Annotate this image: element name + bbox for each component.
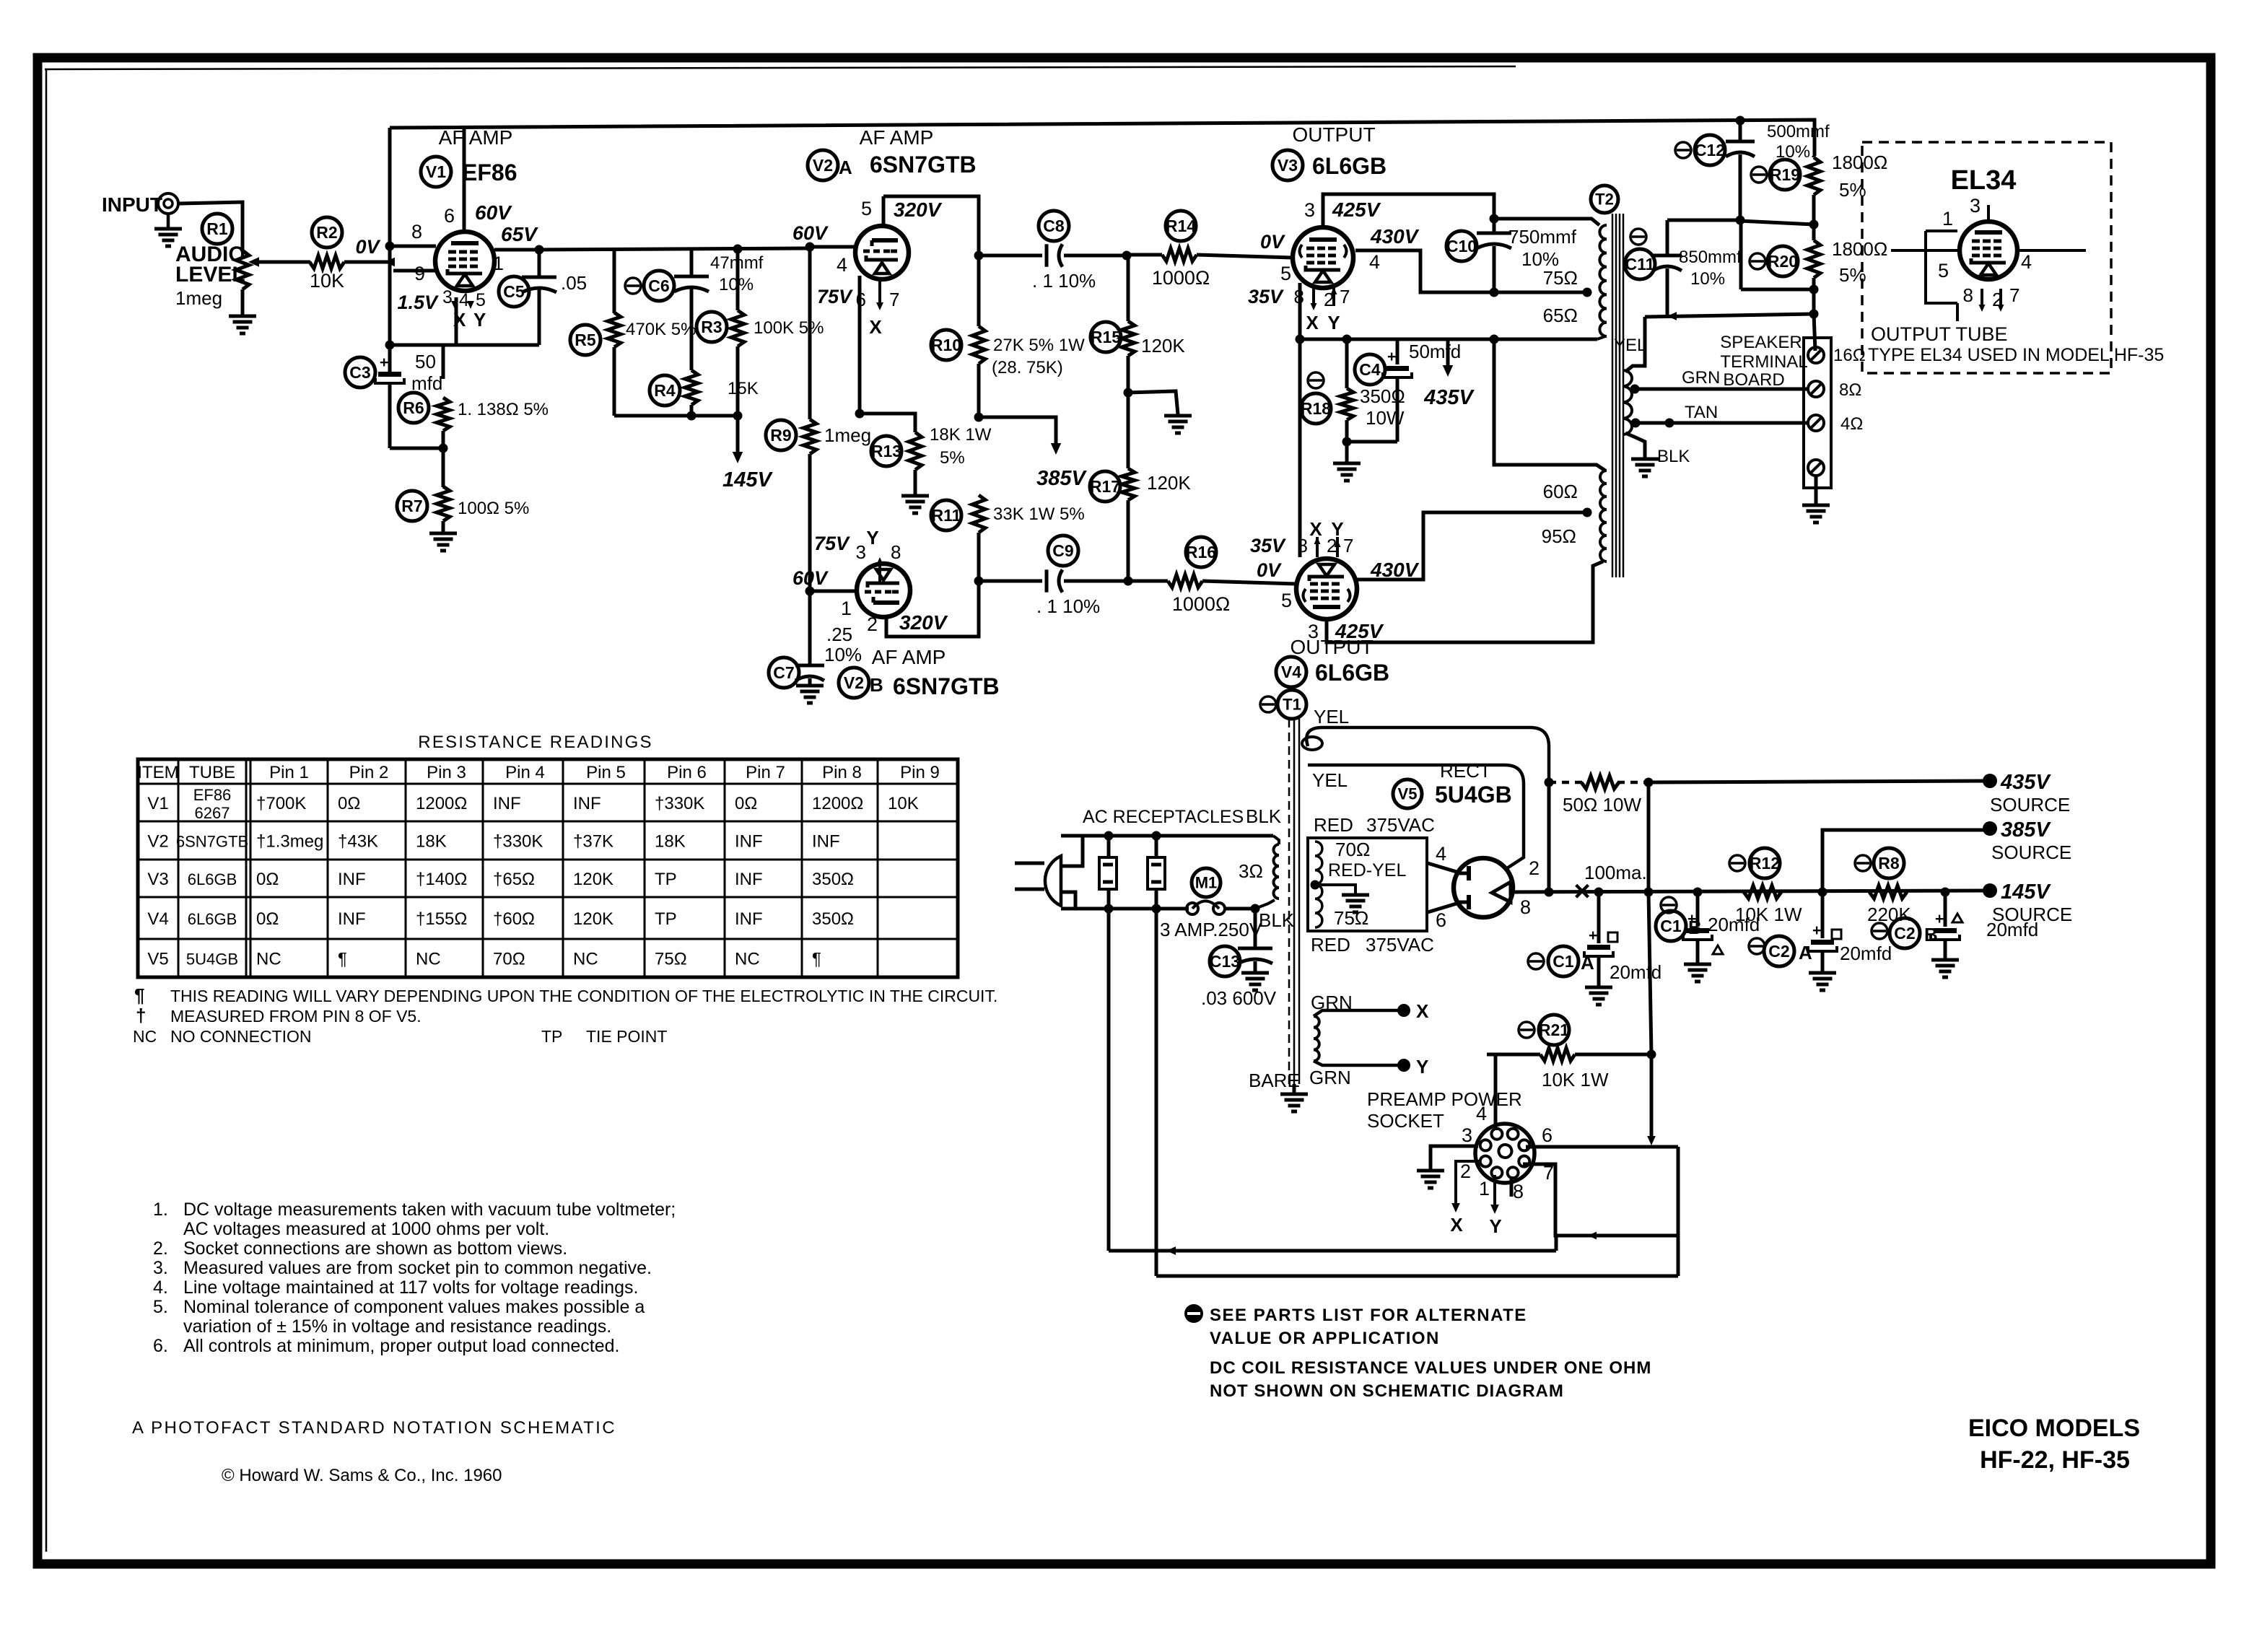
svg-text:†330K: †330K — [493, 832, 543, 852]
svg-text:VALUE OR APPLICATION: VALUE OR APPLICATION — [1210, 1329, 1440, 1348]
svg-text:R12: R12 — [1750, 854, 1780, 873]
svg-text:7: 7 — [1343, 535, 1353, 556]
svg-text:120K: 120K — [573, 909, 613, 929]
svg-text:INF: INF — [338, 870, 366, 889]
INPUT jack J1 — [102, 193, 178, 216]
AC plug — [1015, 836, 1083, 909]
wire V3/V4 cathode bus — [1296, 335, 1606, 344]
svg-text:INPUT: INPUT — [102, 193, 162, 216]
svg-text:EL34: EL34 — [1951, 165, 2017, 196]
svg-text:320V: 320V — [899, 611, 948, 634]
svg-text:R10: R10 — [931, 336, 961, 354]
svg-text:+: + — [380, 354, 388, 371]
terminal ground — [1808, 460, 1824, 476]
svg-text:INF: INF — [493, 794, 521, 813]
wire YEL lead 1 (5V winding to 50ohm node) — [1302, 727, 1549, 781]
wire 50ohm vertical left — [1547, 782, 1551, 892]
label AF AMP (V2B) — [872, 646, 946, 668]
svg-text:5: 5 — [476, 290, 486, 310]
wire V4 grid — [1257, 559, 1292, 611]
svg-text:R9: R9 — [770, 426, 791, 445]
wire grid-box bottom — [390, 344, 539, 347]
wire T1 primary top hook — [1273, 836, 1279, 844]
node 0V (V1 grid) — [355, 236, 380, 258]
svg-text:4.: 4. — [153, 1277, 168, 1298]
table row V2 — [147, 832, 839, 852]
svg-text:A: A — [1581, 952, 1594, 974]
svg-text:0Ω: 0Ω — [256, 909, 279, 929]
wire GRN to X — [1314, 1000, 1429, 1022]
svg-text:3 AMP.250V: 3 AMP.250V — [1160, 919, 1262, 940]
wire C5 to box bottom — [538, 289, 541, 345]
svg-text:Pin 6: Pin 6 — [667, 763, 707, 782]
resistor R14 1000ohm — [1127, 211, 1293, 289]
ground (R18) — [1333, 442, 1361, 481]
wire V5 pin 6 — [1428, 904, 1457, 931]
label 100ma / X tie point — [1573, 862, 1646, 907]
svg-text:0Ω: 0Ω — [735, 794, 757, 813]
svg-text:TP: TP — [655, 870, 677, 889]
svg-text:18K: 18K — [416, 832, 447, 852]
svg-text:R4: R4 — [654, 381, 676, 400]
wire cathode bus to lower winding — [1494, 339, 1605, 471]
wire B+ down to R21 node — [1649, 892, 1651, 1054]
AC receptacle 1 — [1099, 836, 1117, 909]
label 430V (V3 screen) — [1370, 225, 1420, 248]
label DC COIL RESISTANCE — [1210, 1358, 1651, 1401]
svg-text:†65Ω: †65Ω — [493, 870, 535, 889]
resistor R4 15K — [650, 289, 759, 416]
svg-text:8: 8 — [891, 541, 901, 563]
ground (socket) — [1417, 1171, 1444, 1188]
label PREAMP POWER SOCKET — [1367, 1088, 1522, 1132]
svg-text:20mfd: 20mfd — [1610, 961, 1661, 983]
wire AC bottom bus — [1061, 904, 1189, 914]
tube V5 5U4GB — [1454, 858, 1513, 917]
resistor R5 470K — [570, 250, 696, 416]
svg-text:TP: TP — [541, 1027, 562, 1046]
svg-text:INF: INF — [573, 794, 601, 813]
svg-text:C7: C7 — [773, 663, 794, 682]
node 435V junction — [1644, 778, 1654, 787]
svg-text:C1: C1 — [1553, 952, 1574, 971]
svg-text:NC: NC — [416, 950, 441, 969]
node V1 plate junction — [535, 245, 544, 255]
notes list — [153, 1199, 676, 1356]
svg-text:†37K: †37K — [573, 832, 613, 852]
capacitor C3 50mfd — [345, 351, 442, 448]
svg-text:2.: 2. — [153, 1238, 168, 1259]
svg-text:R14: R14 — [1166, 217, 1196, 235]
svg-text:+: + — [1387, 349, 1396, 365]
svg-text:Y: Y — [1416, 1056, 1428, 1078]
wire R21 node to pin6 line — [1647, 1054, 1656, 1145]
svg-text:Y: Y — [1331, 518, 1343, 540]
capacitor C2 section B 20mfd — [1872, 892, 2038, 960]
capacitor C1 section A 20mfd — [1528, 892, 1661, 987]
table footnote dagger — [136, 1005, 422, 1026]
label OUTPUT (V4) — [1290, 636, 1373, 658]
svg-text:X: X — [869, 316, 882, 338]
svg-text:5%: 5% — [940, 448, 965, 468]
svg-text:BLK: BLK — [1246, 805, 1282, 827]
resistor R7 100ohm — [397, 448, 529, 533]
svg-text:8: 8 — [1963, 284, 1973, 306]
ground (terminal board) — [1802, 476, 1830, 523]
svg-text:RECT: RECT — [1440, 760, 1491, 782]
svg-text:120K: 120K — [1147, 472, 1191, 494]
svg-text:430V: 430V — [1370, 559, 1420, 581]
svg-text:R17: R17 — [1090, 477, 1120, 496]
svg-text:R11: R11 — [932, 506, 961, 525]
ground (C7) — [796, 686, 824, 703]
svg-text:AC voltages measured at 1000 o: AC voltages measured at 1000 ohms per vo… — [183, 1219, 549, 1239]
svg-text:OUTPUT: OUTPUT — [1292, 123, 1375, 146]
label copyright Howard W. Sams — [222, 1466, 502, 1485]
svg-text:R21: R21 — [1539, 1021, 1569, 1039]
svg-text:350Ω: 350Ω — [812, 870, 854, 889]
svg-text:5: 5 — [1280, 263, 1291, 284]
svg-text:50mfd: 50mfd — [1409, 341, 1461, 362]
wire to 435V source — [1649, 781, 1988, 782]
tube V4 designator — [1276, 657, 1389, 687]
svg-text:1000Ω: 1000Ω — [1152, 267, 1210, 289]
svg-text:C4: C4 — [1359, 360, 1381, 379]
svg-text:10K: 10K — [310, 270, 344, 292]
svg-text:TERMINAL: TERMINAL — [1720, 352, 1807, 372]
wire V3 plate pin 3 — [1304, 194, 1494, 227]
node 385V SOURCE — [1983, 818, 2071, 863]
node C10 bottom junction — [1490, 288, 1499, 297]
svg-text:. 1 10%: . 1 10% — [1032, 270, 1096, 292]
svg-text:8Ω: 8Ω — [1839, 380, 1861, 400]
terminal 4 ohm — [1808, 414, 1863, 434]
wire V1 left vertical — [388, 128, 392, 370]
svg-text:1: 1 — [841, 598, 852, 619]
table row V4 — [147, 909, 854, 929]
wire V2A grid — [792, 222, 856, 276]
wire socket pin 8 stub — [1510, 1176, 1514, 1197]
wire GRN tap — [1630, 368, 1809, 394]
node 145V source arrow — [722, 416, 773, 491]
wire pin 9 — [393, 263, 439, 284]
wire R1 to ground — [241, 289, 245, 316]
svg-text:X: X — [1450, 1214, 1463, 1236]
svg-text:SPEAKER: SPEAKER — [1720, 333, 1802, 352]
svg-text:M1: M1 — [1195, 873, 1218, 891]
svg-text:35V: 35V — [1248, 286, 1284, 307]
svg-text:BARE: BARE — [1249, 1070, 1300, 1091]
resistor 50ohm 10W (dashed leads) — [1549, 776, 1649, 816]
wire bottom 145V bus — [614, 411, 743, 421]
svg-text:SEE PARTS LIST FOR ALTERNA: SEE PARTS LIST FOR ALTERNATE — [1210, 1306, 1527, 1325]
wire R2 to V1 grid — [344, 258, 395, 267]
node 385V source arrow — [979, 417, 1088, 490]
svg-text:INF: INF — [812, 832, 840, 852]
svg-text:MEASURED FROM PIN 8 OF V5.: MEASURED FROM PIN 8 OF V5. — [170, 1007, 422, 1026]
svg-text:C11: C11 — [1625, 255, 1655, 274]
resistor R9 1meg — [766, 419, 871, 591]
label AF AMP (V1) — [439, 126, 513, 149]
table footnote TP — [541, 1027, 667, 1046]
svg-text:© Howard W. Sams & Co., Inc.: © Howard W. Sams & Co., Inc. 1960 — [222, 1466, 502, 1485]
svg-text:†155Ω: †155Ω — [416, 909, 467, 929]
svg-text:1200Ω: 1200Ω — [812, 794, 863, 813]
svg-text:AC RECEPTACLES: AC RECEPTACLES — [1083, 807, 1244, 827]
table row V1 — [147, 786, 918, 822]
svg-text:LEVEL: LEVEL — [175, 263, 245, 287]
svg-text:320V: 320V — [894, 198, 943, 221]
label BLK (top) — [1246, 805, 1282, 827]
svg-text:INF: INF — [338, 909, 366, 929]
table row V3 — [147, 870, 854, 889]
svg-text:75V: 75V — [814, 533, 850, 554]
svg-text:5: 5 — [1938, 260, 1949, 281]
svg-text:5: 5 — [861, 198, 872, 219]
svg-text:435V: 435V — [2000, 771, 2051, 794]
svg-text:20mfd: 20mfd — [1708, 914, 1760, 935]
transformer T2 primary lower winding — [1542, 471, 1607, 561]
node top rail end — [1736, 116, 1745, 126]
svg-text:Socket connections are shown a: Socket connections are shown as bottom v… — [183, 1238, 567, 1259]
wire V1-V2 coupling vertical — [808, 248, 812, 419]
capacitor C8 .1 — [979, 211, 1127, 292]
svg-text:1.: 1. — [153, 1199, 168, 1220]
svg-text:†: † — [136, 1005, 146, 1026]
label Y / pins 3 8 (V2B) — [814, 527, 901, 585]
svg-text:4: 4 — [2021, 251, 2032, 273]
ground (BLK) — [1631, 459, 1659, 476]
svg-text:V1: V1 — [426, 162, 446, 181]
wire socket pin X arrow — [1450, 1161, 1481, 1236]
svg-text:9: 9 — [414, 263, 425, 284]
svg-text:AF AMP: AF AMP — [860, 126, 934, 149]
svg-text:8: 8 — [411, 221, 422, 242]
label AF AMP (V2A) — [860, 126, 934, 149]
svg-text:6L6GB: 6L6GB — [188, 910, 237, 928]
label YEL (top) — [1314, 706, 1349, 727]
label 1.5V / pins 3 4 5 / X Y — [397, 287, 486, 331]
label pin 1 — [493, 253, 504, 274]
resistor R8 220K — [1855, 848, 1911, 925]
AC receptacle 2 — [1148, 836, 1165, 909]
svg-text:V1: V1 — [147, 794, 168, 813]
svg-text:350Ω: 350Ω — [812, 909, 854, 929]
wire main B+ rail — [1513, 888, 1988, 897]
capacitor C7 .25 — [769, 591, 862, 688]
wire V2A plate rail — [883, 196, 979, 255]
svg-text:Y: Y — [866, 527, 878, 549]
terminal 16 ohm — [1808, 346, 1866, 365]
speaker terminal board — [1804, 338, 1831, 488]
wire V2B plate link — [867, 581, 979, 637]
wire C3 bottom to R6 bottom — [390, 444, 448, 453]
resistor R21 10K 1W — [1487, 1015, 1651, 1091]
svg-text:1: 1 — [1479, 1178, 1490, 1199]
table header row — [137, 763, 940, 782]
tube V1 EF86 — [435, 232, 494, 291]
svg-text:C13: C13 — [1210, 952, 1240, 971]
wire 385V line — [1822, 830, 1990, 892]
svg-text:C5: C5 — [503, 282, 525, 301]
ground (C2A) — [1809, 973, 1836, 990]
svg-text:4: 4 — [1476, 1103, 1487, 1124]
svg-text:60V: 60V — [792, 222, 829, 244]
svg-text:AF AMP: AF AMP — [439, 126, 513, 149]
label 75 ohm — [1334, 907, 1368, 929]
svg-text:YEL: YEL — [1614, 336, 1646, 355]
svg-text:C6: C6 — [648, 276, 669, 295]
svg-text:850mmf: 850mmf — [1679, 248, 1742, 267]
svg-text:TP: TP — [655, 909, 677, 929]
svg-text:20mfd: 20mfd — [1986, 919, 2038, 940]
svg-text:INF: INF — [735, 870, 763, 889]
ground (R7) — [429, 533, 457, 551]
svg-text:0V: 0V — [1260, 231, 1285, 253]
svg-text:Pin 1: Pin 1 — [269, 763, 309, 782]
svg-text:BOARD: BOARD — [1723, 370, 1784, 390]
node V2B plate node — [974, 577, 984, 586]
svg-text:6SN7GTB: 6SN7GTB — [870, 152, 977, 178]
node R15-R17 junction + ground stub — [1124, 388, 1179, 415]
ground (C1A) — [1585, 987, 1612, 1005]
resistor R15 120K — [1091, 255, 1185, 468]
svg-text:6SN7GTB: 6SN7GTB — [176, 833, 248, 851]
svg-text:1.5V: 1.5V — [397, 292, 439, 313]
svg-text:Pin 3: Pin 3 — [427, 763, 466, 782]
svg-text:NOT SHOWN ON SCHEMATIC DIA: NOT SHOWN ON SCHEMATIC DIAGRAM — [1210, 1381, 1564, 1401]
socket pin labels — [1460, 1103, 1554, 1202]
svg-text:R8: R8 — [1878, 854, 1900, 873]
wire EL34 grid line — [1891, 250, 2086, 281]
svg-text:6SN7GTB: 6SN7GTB — [893, 673, 1000, 699]
label RECT — [1440, 760, 1491, 782]
label TYPE EL34 USED IN MODEL HF-35 — [1868, 345, 2164, 365]
svg-text:1meg: 1meg — [175, 287, 222, 309]
svg-text:750mmf: 750mmf — [1508, 226, 1577, 248]
svg-text:430V: 430V — [1370, 225, 1420, 248]
svg-text:4: 4 — [1369, 251, 1380, 273]
tube V2B 6SN7GTB triode — [857, 564, 910, 617]
resistor R6 1.138ohm — [398, 345, 549, 448]
wire R21 to socket pin 4 — [1494, 1054, 1498, 1130]
node R21 junction — [1647, 1050, 1656, 1059]
svg-text:R2: R2 — [316, 223, 337, 242]
transformer T2 designator — [1591, 185, 1618, 213]
svg-text:T2: T2 — [1595, 190, 1614, 208]
capacitor C6 47mmf — [625, 249, 764, 301]
capacitor C12 500mmf — [1675, 120, 1830, 220]
svg-text:R19: R19 — [1770, 165, 1800, 184]
svg-text:EICO MODELS: EICO MODELS — [1968, 1415, 2140, 1442]
label SPEAKER TERMINAL BOARD — [1720, 333, 1807, 390]
resistor R3 100K — [696, 245, 824, 416]
svg-text:75Ω: 75Ω — [655, 950, 687, 969]
wire GRN to Y — [1314, 1056, 1428, 1078]
svg-text:C1: C1 — [1660, 917, 1682, 935]
svg-text:0V: 0V — [355, 236, 380, 258]
svg-text:†60Ω: †60Ω — [493, 909, 535, 929]
svg-text:C10: C10 — [1446, 237, 1477, 255]
wire RED-YEL center tap — [1311, 860, 1407, 895]
svg-text:†330K: †330K — [655, 794, 704, 813]
svg-text:65V: 65V — [501, 223, 538, 245]
label EL34 — [1951, 165, 2017, 196]
ground (C2B) — [1931, 960, 1959, 977]
wire bottom return A — [1109, 909, 1556, 1255]
label EL34 pins 8 2 7 — [1957, 284, 2019, 321]
wire AC top bus — [1061, 831, 1273, 841]
svg-text:INF: INF — [735, 909, 763, 929]
svg-text:V2: V2 — [147, 832, 168, 852]
svg-text:1. 138Ω 5%: 1. 138Ω 5% — [458, 400, 549, 419]
ground (T1 core BARE) — [1280, 1084, 1308, 1111]
svg-text:1000Ω: 1000Ω — [1172, 593, 1230, 615]
capacitor C2 section A 20mfd — [1749, 892, 1892, 973]
svg-text:425V: 425V — [1332, 198, 1381, 221]
node cathode junction — [855, 409, 865, 419]
table row V5 — [147, 950, 821, 969]
svg-text:YEL: YEL — [1312, 769, 1348, 791]
wire V3 cathode — [1298, 283, 1302, 339]
resistor R16 1000ohm — [1128, 537, 1296, 615]
svg-text:0Ω: 0Ω — [338, 794, 360, 813]
wire 75ohm tap — [1494, 288, 1592, 297]
svg-text:†140Ω: †140Ω — [416, 870, 467, 889]
ground (C13) — [1241, 973, 1269, 990]
svg-text:A: A — [1799, 942, 1812, 963]
svg-text:10K: 10K — [888, 794, 919, 813]
svg-text:×: × — [1573, 875, 1590, 907]
svg-text:SOURCE: SOURCE — [1991, 842, 2071, 863]
svg-text:3: 3 — [1462, 1124, 1472, 1146]
tube V3 6L6GB — [1293, 227, 1353, 288]
svg-text:OUTPUT TUBE: OUTPUT TUBE — [1871, 323, 2008, 345]
svg-text:V3: V3 — [147, 870, 168, 889]
node V2A plate node — [974, 251, 984, 261]
svg-text:PREAMP POWER: PREAMP POWER — [1367, 1088, 1522, 1110]
svg-text:0Ω: 0Ω — [256, 870, 279, 889]
svg-text:. 1 10%: . 1 10% — [1036, 595, 1100, 617]
svg-text:10K 1W: 10K 1W — [1542, 1069, 1609, 1091]
svg-text:10%: 10% — [1690, 269, 1725, 289]
svg-text:100K 5%: 100K 5% — [754, 318, 824, 338]
svg-text:C12: C12 — [1695, 141, 1725, 159]
svg-text:70Ω: 70Ω — [1335, 839, 1370, 860]
wire R18/C4 bottom — [1342, 437, 1398, 447]
svg-text:Pin 2: Pin 2 — [349, 763, 389, 782]
tube V4 6L6GB — [1296, 559, 1357, 619]
resistor R13 18K — [871, 425, 992, 496]
meter point M1 — [1192, 860, 1263, 897]
svg-text:2: 2 — [1529, 857, 1540, 879]
fuse 3 AMP 250V — [1160, 901, 1262, 941]
resistor R17 120K — [1090, 468, 1191, 581]
svg-text:385V: 385V — [1036, 467, 1087, 490]
svg-text:†700K: †700K — [256, 794, 306, 813]
svg-text:EF86: EF86 — [193, 786, 232, 804]
label RESISTANCE READINGS — [418, 733, 652, 752]
svg-text:X: X — [1306, 312, 1319, 333]
ground (R1) — [229, 316, 256, 333]
svg-text:BLK: BLK — [1259, 909, 1295, 931]
wire wiper to R2 — [254, 261, 310, 264]
svg-text:Y: Y — [1489, 1215, 1501, 1237]
svg-text:R16: R16 — [1186, 543, 1216, 561]
svg-text:TIE POINT: TIE POINT — [586, 1027, 667, 1046]
svg-text:V4: V4 — [1281, 663, 1301, 681]
svg-text:1800Ω: 1800Ω — [1832, 152, 1887, 173]
